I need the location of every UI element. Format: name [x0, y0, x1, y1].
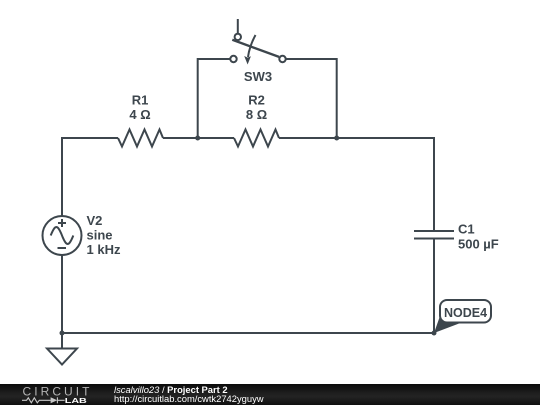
label R1 4 Ω — [129, 93, 150, 123]
switch SW3 — [230, 19, 285, 84]
svg-text:1 kHz: 1 kHz — [87, 242, 121, 257]
wire R1 to R2 — [163, 137, 234, 139]
svg-text:R2: R2 — [248, 93, 265, 108]
capacitor C1 — [414, 231, 454, 239]
wire left vertical lower + bottom + right vertical lower — [62, 239, 434, 334]
svg-text:sine: sine — [87, 228, 113, 243]
wire switch left horizontal + vertical — [198, 59, 231, 138]
minus sign — [58, 247, 67, 249]
label R2 8 Ω — [246, 93, 267, 123]
resistor R1 — [118, 130, 163, 147]
resistor R2 — [234, 130, 279, 147]
svg-text:C1: C1 — [458, 222, 475, 237]
junction dot left of switch branch — [195, 136, 200, 141]
svg-text:8 Ω: 8 Ω — [246, 107, 267, 122]
switch top terminal — [235, 34, 241, 40]
wire switch right horizontal + vertical — [286, 59, 337, 138]
plus sign — [58, 219, 66, 227]
wire top-left corner segment — [62, 138, 118, 216]
switch motion arrow — [248, 35, 256, 57]
label V2 sine 1 kHz — [87, 213, 121, 257]
switch right terminal — [279, 56, 285, 62]
switch arm — [232, 40, 279, 57]
footer bar — [0, 384, 540, 405]
ground — [47, 333, 77, 365]
svg-text:SW3: SW3 — [244, 69, 272, 84]
junction dot right of switch branch — [334, 136, 339, 141]
sine wave — [51, 227, 74, 244]
svg-text:LAB: LAB — [65, 396, 88, 405]
voltage source V2 — [43, 216, 82, 255]
CircuitLab logo — [22, 386, 92, 405]
junction dot bottom-left — [60, 331, 65, 336]
svg-text:4 Ω: 4 Ω — [129, 107, 150, 122]
junction dot bottom-right node4 — [432, 331, 437, 336]
wire R2 to top-right corner — [279, 138, 434, 231]
node NODE4 flag — [434, 300, 491, 333]
svg-text:500 µF: 500 µF — [458, 237, 499, 252]
svg-text:V2: V2 — [87, 213, 103, 228]
wire top stub — [237, 19, 239, 34]
switch left terminal — [230, 56, 236, 62]
label C1 500 µF — [458, 222, 499, 252]
svg-text:R1: R1 — [132, 93, 149, 108]
svg-text:NODE4: NODE4 — [444, 306, 487, 320]
